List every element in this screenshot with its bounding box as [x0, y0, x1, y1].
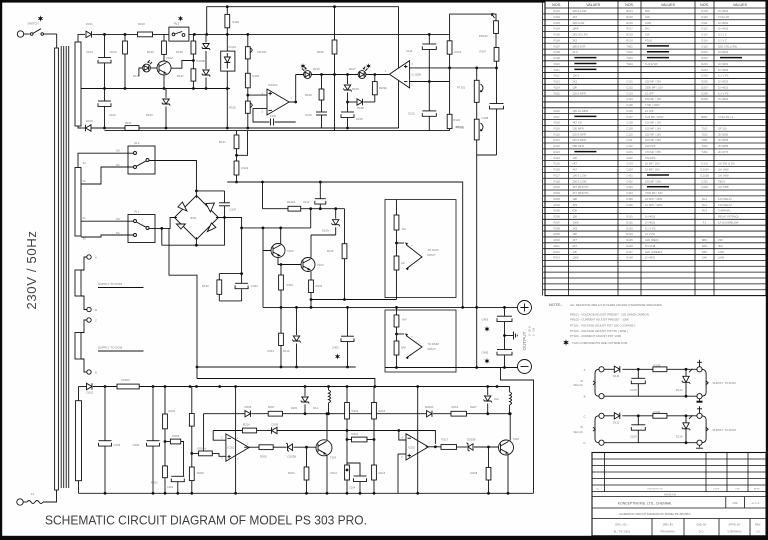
svg-text:D111: D111	[701, 21, 708, 25]
svg-text:LM 1458: LM 1458	[718, 185, 729, 189]
wire	[219, 300, 241, 302]
svg-text:R209: R209	[553, 232, 560, 236]
svg-text:NOS.: NOS.	[552, 3, 561, 7]
wire	[235, 387, 237, 494]
capacitor C111	[422, 44, 436, 49]
resistor R115	[279, 275, 284, 290]
junction	[163, 87, 166, 90]
junction	[124, 33, 127, 36]
svg-text:D105: D105	[626, 238, 633, 242]
wire	[373, 387, 375, 403]
svg-text:D106: D106	[352, 87, 359, 91]
svg-text:82K: 82K	[572, 209, 577, 213]
svg-text:3300 MF / 16V: 3300 MF / 16V	[645, 85, 663, 89]
svg-text:R212: R212	[553, 250, 560, 254]
wire	[311, 299, 397, 301]
svg-text:C112: C112	[626, 144, 633, 148]
wire	[488, 447, 490, 468]
svg-text:C202: C202	[626, 156, 633, 160]
svg-text:220 E MFR: 220 E MFR	[572, 132, 586, 136]
resistor R206	[259, 445, 273, 450]
svg-text:3K3: 3K3	[572, 39, 577, 43]
svg-text:10K: 10K	[645, 33, 650, 37]
diode D203	[245, 411, 251, 417]
svg-text:10K: 10K	[572, 250, 577, 254]
svg-text:C105: C105	[626, 103, 633, 107]
svg-text:R108: R108	[305, 93, 312, 97]
svg-text:C201: C201	[626, 150, 633, 154]
svg-text:C202: C202	[701, 185, 708, 189]
wire	[449, 129, 451, 131]
wire	[152, 447, 154, 494]
resistor R205	[189, 414, 194, 427]
svg-text:D202B: D202B	[288, 455, 297, 459]
wire	[476, 140, 478, 155]
wire	[79, 492, 534, 494]
svg-text:D109: D109	[701, 9, 708, 13]
junction	[176, 492, 179, 495]
svg-text:R213: R213	[553, 256, 560, 260]
svg-text:R211: R211	[554, 244, 561, 248]
resistor R102	[123, 41, 128, 54]
svg-text:T204: T204	[701, 150, 708, 154]
svg-text:6.2 V PZ: 6.2 V PZ	[718, 91, 729, 95]
junction	[165, 127, 168, 130]
junction	[685, 368, 688, 371]
svg-text:INPUT: INPUT	[428, 347, 437, 351]
junction	[190, 452, 193, 455]
junction	[295, 366, 298, 369]
svg-text:SBC: SBC	[702, 238, 708, 242]
svg-text:R216: R216	[626, 21, 633, 25]
svg-text:180K: 180K	[572, 27, 578, 31]
wire	[273, 446, 286, 448]
resistor R121	[234, 135, 239, 149]
wire	[505, 335, 514, 337]
svg-text:100 E: 100 E	[572, 74, 579, 78]
junction	[507, 492, 510, 495]
wire	[81, 257, 87, 270]
svg-text:PT101 - VOLTAGE ADJUST POT 10K: PT101 - VOLTAGE ADJUST POT 10K ( COARSE …	[570, 324, 635, 328]
svg-text:TO DCM: TO DCM	[428, 248, 440, 252]
wire	[280, 290, 282, 307]
svg-text:TH01: TH01	[626, 44, 633, 48]
wire	[319, 182, 321, 199]
svg-text:NC: NC	[116, 163, 120, 167]
svg-text:12V RELAY: 12V RELAY	[718, 203, 732, 207]
junction	[416, 492, 419, 495]
svg-text:3K9: 3K9	[572, 203, 577, 207]
svg-text:D110: D110	[283, 349, 290, 353]
wire	[396, 298, 398, 300]
wire	[397, 242, 405, 244]
wire	[504, 322, 506, 350]
wire	[321, 75, 323, 90]
wire	[289, 75, 296, 103]
junction	[503, 366, 506, 369]
svg-text:10K: 10K	[572, 156, 577, 160]
svg-text:TH02: TH02	[626, 50, 633, 54]
capacitor C102	[98, 101, 111, 106]
wire	[203, 414, 205, 454]
junction	[416, 385, 419, 388]
svg-text:R108: R108	[553, 50, 560, 54]
svg-text:56K: 56K	[645, 9, 650, 13]
svg-text:D108: D108	[357, 106, 364, 110]
wire	[311, 234, 336, 236]
wire	[81, 235, 134, 237]
svg-text:RL1: RL1	[702, 197, 707, 201]
svg-text:R214: R214	[379, 471, 386, 475]
svg-text:C101: C101	[626, 80, 633, 84]
wire	[501, 368, 534, 494]
capacitor C402	[341, 336, 354, 341]
transistor V104	[301, 258, 315, 272]
svg-text:D209: D209	[272, 423, 279, 427]
wire	[205, 51, 207, 69]
svg-text:S2: S2	[83, 179, 87, 183]
zener D202B	[286, 443, 293, 451]
diode D206A	[427, 411, 433, 417]
junction	[397, 429, 400, 432]
relay RL1	[128, 215, 155, 243]
wire	[476, 102, 478, 119]
wire	[197, 366, 356, 368]
wire	[335, 209, 337, 219]
junction	[234, 492, 237, 495]
resistor R217	[441, 445, 457, 450]
resistor R130	[217, 280, 222, 294]
wire	[218, 294, 220, 301]
svg-text:R110: R110	[554, 62, 561, 66]
zener D203B	[467, 443, 474, 451]
resistor R112	[342, 244, 347, 259]
svg-text:D101: D101	[626, 215, 633, 219]
resistor R119	[162, 41, 167, 54]
wire	[56, 34, 58, 48]
wire	[496, 109, 498, 155]
svg-text:C402: C402	[626, 179, 633, 183]
resistor PT101	[474, 80, 479, 102]
wire	[321, 115, 323, 128]
junction	[223, 216, 226, 219]
wire	[397, 333, 405, 335]
resistor R134	[309, 280, 314, 293]
svg-text:R121: R121	[553, 138, 560, 142]
wire	[124, 34, 126, 41]
svg-text:R128: R128	[176, 50, 183, 54]
resistor R202	[163, 466, 168, 478]
wire	[374, 95, 376, 102]
svg-text:1N 4002: 1N 4002	[645, 215, 656, 219]
capacitor C110	[422, 111, 436, 116]
junction	[343, 298, 346, 301]
svg-text:C: C	[583, 414, 585, 418]
wire	[80, 33, 85, 35]
svg-text:R218: R218	[626, 33, 633, 37]
wire	[105, 130, 450, 132]
svg-text:680 E E7R: 680 E E7R	[572, 44, 585, 48]
svg-text:REV.: REV.	[755, 523, 761, 527]
svg-text:SBV: SBV	[702, 250, 708, 254]
svg-text:2K7: 2K7	[572, 244, 577, 248]
junction	[373, 412, 376, 415]
wire	[428, 82, 430, 111]
junction	[226, 33, 229, 36]
wire	[450, 14, 496, 34]
svg-text:D112: D112	[613, 420, 620, 424]
transformer T1 primary winding	[55, 48, 59, 490]
svg-text:SIZE: SIZE	[732, 502, 738, 505]
wire	[195, 191, 197, 198]
wire	[396, 307, 398, 315]
junction	[319, 181, 322, 184]
LED D105	[302, 67, 311, 79]
wire	[218, 274, 220, 280]
svg-text:R103: R103	[553, 21, 560, 25]
svg-text:SUPPLY TO DCM: SUPPLY TO DCM	[713, 428, 737, 432]
wire	[192, 452, 199, 454]
junction	[487, 492, 490, 495]
svg-text:D208: D208	[701, 91, 708, 95]
resistor PR103	[494, 21, 499, 34]
svg-text:V103: V103	[287, 249, 294, 253]
wire	[296, 74, 390, 76]
svg-text:PR101 - VOLTAGE ADJUST PRESET: PR101 - VOLTAGE ADJUST PRESET - 220 OHMS…	[570, 313, 649, 317]
svg-text:C404: C404	[251, 284, 258, 288]
svg-text:R103: R103	[138, 22, 145, 26]
resistor VC203	[117, 384, 139, 389]
wire	[448, 34, 451, 40]
capacitor C304	[354, 476, 367, 481]
svg-text:+: +	[411, 335, 413, 339]
wire	[93, 33, 138, 35]
fuse F1	[17, 499, 23, 505]
DCM sense box	[385, 200, 456, 298]
junction	[103, 33, 106, 36]
svg-text:1K2: 1K2	[572, 80, 577, 84]
junction	[192, 87, 195, 90]
svg-text:C403: C403	[626, 185, 633, 189]
svg-text:C108: C108	[626, 121, 633, 125]
svg-text:D104: D104	[626, 232, 633, 236]
svg-text:4K7: 4K7	[572, 238, 577, 242]
wire	[507, 455, 509, 494]
junction	[487, 446, 490, 449]
transistor V102	[157, 61, 171, 75]
svg-text:R107: R107	[480, 50, 487, 54]
wire	[476, 68, 478, 80]
svg-text:V.SRINIVAS: V.SRINIVAS	[727, 530, 741, 534]
svg-text:0.22 MF / 100V: 0.22 MF / 100V	[645, 115, 664, 119]
svg-text:D203: D203	[245, 405, 252, 409]
svg-text:SF 316: SF 316	[718, 127, 727, 131]
svg-text:R115: R115	[554, 91, 561, 95]
svg-text:R104: R104	[253, 74, 260, 78]
svg-text:D112: D112	[701, 27, 708, 31]
svg-text:C204: C204	[167, 485, 174, 489]
svg-text:RL1: RL1	[135, 210, 140, 214]
svg-text:BL / TA / S012: BL / TA / S012	[614, 530, 631, 534]
wire	[347, 93, 349, 113]
wire	[396, 230, 398, 256]
transformer secondary winding seg2 (A-B)	[75, 270, 81, 296]
svg-text:D113: D113	[676, 388, 683, 392]
svg-text:V102: V102	[166, 56, 173, 60]
wire	[207, 7, 399, 129]
svg-text:4K7: 4K7	[572, 162, 577, 166]
junction	[509, 412, 512, 415]
wire	[81, 167, 134, 184]
wire	[244, 446, 259, 448]
svg-text:1N 4002: 1N 4002	[718, 80, 729, 84]
junction	[205, 33, 208, 36]
svg-text:HIV: HIV	[402, 318, 407, 322]
svg-text:B: B	[95, 308, 97, 312]
zener V105	[202, 44, 210, 51]
junction	[374, 385, 377, 388]
resistor R212	[352, 437, 368, 442]
wire	[433, 413, 451, 415]
svg-text:1A SLOW/BLOW: 1A SLOW/BLOW	[718, 220, 739, 224]
wire	[161, 228, 163, 245]
svg-text:3R3 1/2W: 3R3 1/2W	[572, 21, 584, 25]
zener D114	[682, 415, 693, 442]
svg-text:12V RELAY: 12V RELAY	[718, 197, 732, 201]
svg-text:10 MF / 25V: 10 MF / 25V	[645, 162, 660, 166]
wire	[79, 386, 87, 388]
resistor R216	[451, 411, 467, 416]
svg-text:2K2: 2K2	[645, 27, 650, 31]
wire	[165, 107, 167, 129]
wire	[306, 480, 308, 493]
svg-text:SCHEMATIC CIRCUIT DIAGRAM OF M: SCHEMATIC CIRCUIT DIAGRAM OF MODEL PS 30…	[45, 513, 367, 528]
wire	[216, 218, 242, 284]
junction	[240, 272, 243, 275]
junction	[164, 385, 167, 388]
svg-text:PT102: PT102	[456, 126, 465, 130]
svg-text:R127: R127	[553, 174, 560, 178]
svg-text:D204: D204	[701, 68, 708, 72]
junction	[319, 207, 322, 210]
wire	[310, 272, 312, 281]
svg-text:C: C	[95, 319, 97, 323]
wire	[163, 54, 165, 61]
wire	[78, 34, 80, 42]
svg-text:NOTE:-: NOTE:-	[549, 302, 563, 307]
svg-text:RL1: RL1	[314, 406, 319, 410]
svg-text:D201: D201	[701, 50, 708, 54]
svg-text:A: A	[95, 256, 97, 260]
junction	[346, 127, 349, 130]
junction	[192, 59, 195, 62]
junction	[685, 395, 688, 398]
svg-text:VALUES: VALUES	[586, 3, 601, 7]
wire	[197, 379, 375, 387]
junction	[246, 33, 249, 36]
svg-text:5.1 V Z: 5.1 V Z	[718, 33, 727, 37]
zener D113	[682, 369, 693, 396]
wire	[205, 78, 207, 89]
svg-text:AC: AC	[401, 261, 405, 265]
svg-text:C406: C406	[626, 203, 633, 207]
resistor R103	[138, 32, 153, 37]
svg-text:D115: D115	[701, 44, 708, 48]
svg-text:33E MFR: 33E MFR	[572, 127, 583, 131]
svg-text:0 - 3 A: 0 - 3 A	[532, 328, 536, 336]
svg-text:R112: R112	[554, 74, 561, 78]
wire	[60, 46, 62, 488]
junction	[448, 67, 451, 70]
junction	[280, 306, 283, 309]
svg-text:10 nPF: 10 nPF	[645, 91, 654, 95]
svg-text:6.2 V PZ: 6.2 V PZ	[645, 226, 656, 230]
switch SW (mains)	[17, 31, 23, 37]
svg-text:TBC9: TBC9	[718, 179, 725, 183]
svg-text:SCHEMATIC CIRCUIT DIAGRAM OF M: SCHEMATIC CIRCUIT DIAGRAM OF MODEL PS 30…	[619, 512, 691, 516]
wire	[81, 359, 87, 372]
svg-text:1N 4002: 1N 4002	[718, 68, 729, 72]
svg-text:V104: V104	[317, 263, 324, 267]
junction	[395, 333, 398, 336]
svg-text:1N 4002: 1N 4002	[718, 97, 729, 101]
junction	[261, 181, 264, 184]
junction	[226, 127, 229, 130]
svg-text:SAC: SAC	[702, 244, 708, 248]
svg-text:R219: R219	[352, 409, 359, 413]
svg-text:R124: R124	[455, 50, 462, 54]
svg-text:LED (RED): LED (RED)	[645, 238, 659, 242]
wire	[63, 46, 65, 488]
wire	[294, 446, 317, 448]
capacitor C405	[497, 350, 512, 355]
wire	[152, 387, 154, 441]
resistor PR102	[245, 47, 250, 59]
transformer secondary winding seg3 (C-D)	[75, 333, 81, 360]
junction	[226, 5, 229, 8]
junction	[310, 298, 313, 301]
wire	[164, 387, 166, 415]
wire	[81, 88, 230, 90]
svg-text:R204: R204	[553, 203, 560, 207]
junction	[346, 438, 349, 441]
svg-text:100E: 100E	[718, 256, 724, 260]
junction	[280, 263, 283, 266]
svg-text:S1: S1	[83, 216, 87, 220]
wire	[43, 490, 57, 502]
junction	[334, 207, 337, 210]
wire	[262, 182, 264, 209]
svg-text:C103: C103	[270, 114, 277, 118]
svg-text:CHD. BY: CHD. BY	[696, 523, 707, 527]
wire	[347, 75, 349, 85]
output + terminal	[518, 301, 532, 315]
svg-text:R118: R118	[233, 20, 240, 24]
resistor R105	[245, 101, 250, 113]
DMM sense box	[385, 310, 456, 372]
svg-text:C204: C204	[626, 168, 633, 172]
svg-text:100 E 1/2W: 100 E 1/2W	[572, 174, 587, 178]
svg-text:R201: R201	[169, 409, 176, 413]
svg-text:4K7: 4K7	[572, 15, 577, 19]
svg-text:220 E 1/2W: 220 E 1/2W	[572, 9, 587, 13]
junction	[195, 190, 198, 193]
capacitor C203	[99, 441, 112, 446]
svg-text:R202: R202	[151, 481, 158, 485]
wire	[262, 251, 264, 308]
junction	[637, 414, 640, 417]
transistor T201	[316, 440, 332, 456]
